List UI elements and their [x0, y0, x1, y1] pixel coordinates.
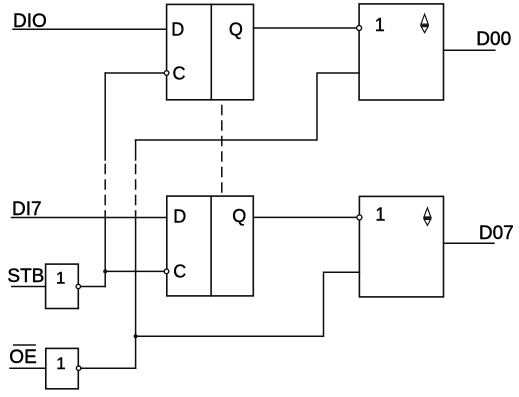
buffer U3 box	[359, 4, 443, 100]
wire U1 Q to U3	[254, 27, 357, 29]
wire vertical x136 dashed	[135, 165, 137, 212]
wire vertical x105 dashed	[104, 165, 106, 212]
bubble U3 input	[357, 26, 362, 31]
svg-text:1: 1	[375, 15, 385, 35]
wire vertical x105 solid lower	[104, 212, 106, 287]
flip-flop U1 box	[167, 4, 254, 99]
svg-text:OE: OE	[9, 347, 36, 368]
buffer U4 box	[359, 196, 443, 297]
svg-text:STB: STB	[7, 266, 44, 287]
bubble U2 C input	[164, 269, 169, 274]
wire node to U2 C	[105, 270, 164, 272]
bubble OE gate output	[76, 366, 80, 370]
wire dashed between U1 and U2	[221, 106, 223, 197]
junction node at OE run	[134, 334, 138, 338]
wire enable run to U3	[136, 73, 360, 140]
tri-state symbol U4	[424, 208, 431, 217]
svg-text:D: D	[171, 20, 184, 40]
wire vertical x105 solid upper	[104, 73, 106, 160]
wire U2 Q to U4	[253, 216, 357, 218]
wire vertical x136 solid upper	[135, 140, 137, 160]
wire STB gate output	[81, 286, 106, 288]
gate U5 box (STB)	[46, 264, 79, 308]
flip-flop U1 divider	[210, 4, 212, 99]
wire U1 C to node	[105, 72, 164, 74]
svg-text:Q: Q	[232, 206, 246, 226]
svg-text:D07: D07	[479, 223, 514, 244]
wire enable run to U4	[136, 272, 360, 336]
svg-text:C: C	[173, 64, 186, 84]
tri-state symbol U3	[421, 14, 428, 24]
flip-flop U2 box	[167, 196, 254, 296]
bubble U1 C input	[164, 71, 169, 76]
bubble STB gate output	[76, 284, 80, 288]
svg-text:C: C	[173, 262, 186, 282]
gate U6 box (OE)	[46, 348, 79, 388]
overline of OE	[13, 344, 36, 346]
wire vertical x136 solid lower	[135, 212, 137, 369]
flip-flop U2 divider	[210, 196, 212, 296]
wire OE gate output	[81, 367, 136, 369]
svg-text:1: 1	[56, 268, 65, 287]
wire STB to gate	[12, 286, 46, 288]
svg-text:1: 1	[56, 354, 65, 373]
bubble U4 input	[357, 215, 362, 220]
svg-text:D00: D00	[476, 29, 511, 50]
junction node at U2 C wire	[103, 269, 107, 273]
wire DI7 to U2 D	[12, 217, 167, 219]
wire DIO to U1 D	[13, 28, 167, 30]
svg-text:Q: Q	[229, 19, 243, 39]
svg-text:1: 1	[375, 205, 385, 225]
wire OE to gate	[10, 367, 46, 369]
svg-text:DIO: DIO	[13, 11, 47, 32]
wire U3 output to D00	[444, 49, 495, 51]
svg-text:DI7: DI7	[12, 199, 42, 220]
wire U4 output to D07	[444, 242, 495, 244]
svg-text:D: D	[173, 207, 186, 227]
